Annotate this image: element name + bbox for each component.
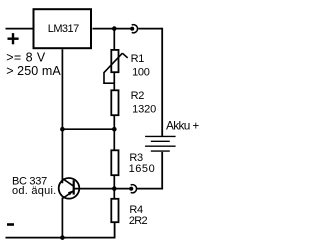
wire: R3 to base node xyxy=(113,175,115,198)
svg-text:100: 100 xyxy=(132,66,150,78)
junction: emitter node dot on bottom rail xyxy=(60,235,65,240)
svg-text:1320: 1320 xyxy=(132,104,156,116)
node: - output terminal label xyxy=(7,223,14,226)
wire: U1 adj pin down left rail to Q1 collector xyxy=(61,49,63,183)
terminal: battery - clip (dot and arc) xyxy=(129,185,136,193)
resistor R3 xyxy=(111,150,118,175)
junction: adj node dot on left rail xyxy=(60,127,65,132)
wire: clip to top-right corner xyxy=(138,28,162,30)
battery B1 Akku xyxy=(145,136,176,151)
svg-text:> 250 mA: > 250 mA xyxy=(6,64,61,78)
wire: base node to Q1 base xyxy=(74,188,131,190)
svg-text:1650: 1650 xyxy=(129,163,156,175)
junction: output node dot xyxy=(112,26,117,31)
transistor Q1 BC337 xyxy=(59,178,80,199)
wire: U1 output to right rail xyxy=(93,28,133,30)
resistor R1 (trimmer) xyxy=(103,50,128,83)
wire: R2 to adj node xyxy=(113,115,115,149)
wire: middle rail top to R1 xyxy=(113,29,115,50)
wire: R1 to R2 xyxy=(113,73,115,90)
svg-text:>= 8 V: >= 8 V xyxy=(6,51,46,65)
svg-text:LM317: LM317 xyxy=(48,23,79,35)
wire: adj node across to left rail xyxy=(62,128,114,130)
svg-text:R4: R4 xyxy=(129,204,143,216)
resistor R4 xyxy=(111,199,118,222)
regulator U1 LM317 xyxy=(34,9,92,48)
junction: adj node dot on middle rail xyxy=(112,127,117,132)
wire: right rail down to battery + xyxy=(161,28,163,137)
wire: input + from left edge to U1 xyxy=(6,28,34,30)
junction: base node dot xyxy=(112,186,117,191)
wire: battery - down and left to base node xyxy=(136,152,162,189)
node: + input terminal label xyxy=(8,33,19,44)
wire: R4 down and corner to bottom rail xyxy=(6,223,115,238)
svg-text:od. äqui.: od. äqui. xyxy=(12,185,56,197)
wire: Q1 emitter down to bottom rail xyxy=(61,198,63,238)
svg-text:2R2: 2R2 xyxy=(129,215,148,227)
terminal: battery + clip (dot and arc) xyxy=(130,25,137,33)
svg-text:R1: R1 xyxy=(131,53,145,65)
svg-text:Akku +: Akku + xyxy=(166,119,199,133)
svg-text:R2: R2 xyxy=(131,90,145,102)
resistor R2 xyxy=(111,90,118,115)
